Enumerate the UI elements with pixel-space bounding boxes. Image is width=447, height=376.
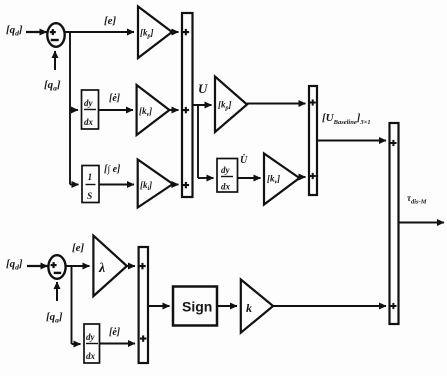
svg-text:[UBaseline]3×1: [UBaseline]3×1 — [322, 112, 371, 126]
svg-text:[e]: [e] — [72, 242, 85, 254]
svg-text:S: S — [87, 192, 92, 202]
svg-text:dx: dx — [86, 351, 96, 361]
svg-text:[ė]: [ė] — [109, 327, 121, 338]
svg-text:dx: dx — [84, 117, 94, 127]
svg-text:1: 1 — [88, 173, 93, 183]
svg-text:[kv]: [kv] — [267, 174, 280, 186]
svg-text:U: U — [198, 81, 208, 96]
svg-text:[ki]: [ki] — [140, 180, 152, 192]
svg-text:[e]: [e] — [104, 15, 117, 27]
svg-text:dy: dy — [221, 165, 231, 175]
svg-text:Sign: Sign — [182, 299, 212, 315]
svg-text:[kp]: [kp] — [140, 28, 154, 40]
svg-text:k: k — [246, 301, 252, 315]
svg-text:U̇: U̇ — [240, 153, 248, 166]
svg-text:dy: dy — [84, 98, 94, 108]
svg-text:[qd]: [qd] — [6, 24, 23, 38]
svg-text:[kv]: [kv] — [139, 106, 152, 118]
svg-text:[ė]: [ė] — [109, 93, 121, 104]
svg-text:[qa]: [qa] — [46, 311, 63, 325]
svg-text:λ: λ — [98, 261, 105, 276]
svg-text:[qa]: [qa] — [44, 79, 61, 93]
svg-text:[kp]: [kp] — [218, 100, 232, 112]
svg-text:[qd]: [qd] — [6, 258, 23, 272]
svg-text:τdis-M: τdis-M — [407, 193, 427, 206]
svg-text:dy: dy — [86, 332, 96, 342]
svg-text:dx: dx — [221, 182, 231, 192]
svg-text:[∫ e]: [∫ e] — [104, 164, 121, 175]
